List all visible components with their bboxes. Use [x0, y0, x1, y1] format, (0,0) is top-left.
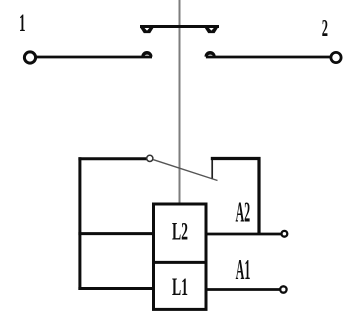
svg-text:L2: L2 [172, 219, 188, 246]
svg-text:A2: A2 [235, 197, 250, 228]
svg-text:1: 1 [19, 9, 25, 37]
svg-text:A1: A1 [236, 254, 251, 285]
svg-text:2: 2 [322, 16, 328, 42]
svg-text:L1: L1 [172, 274, 188, 301]
